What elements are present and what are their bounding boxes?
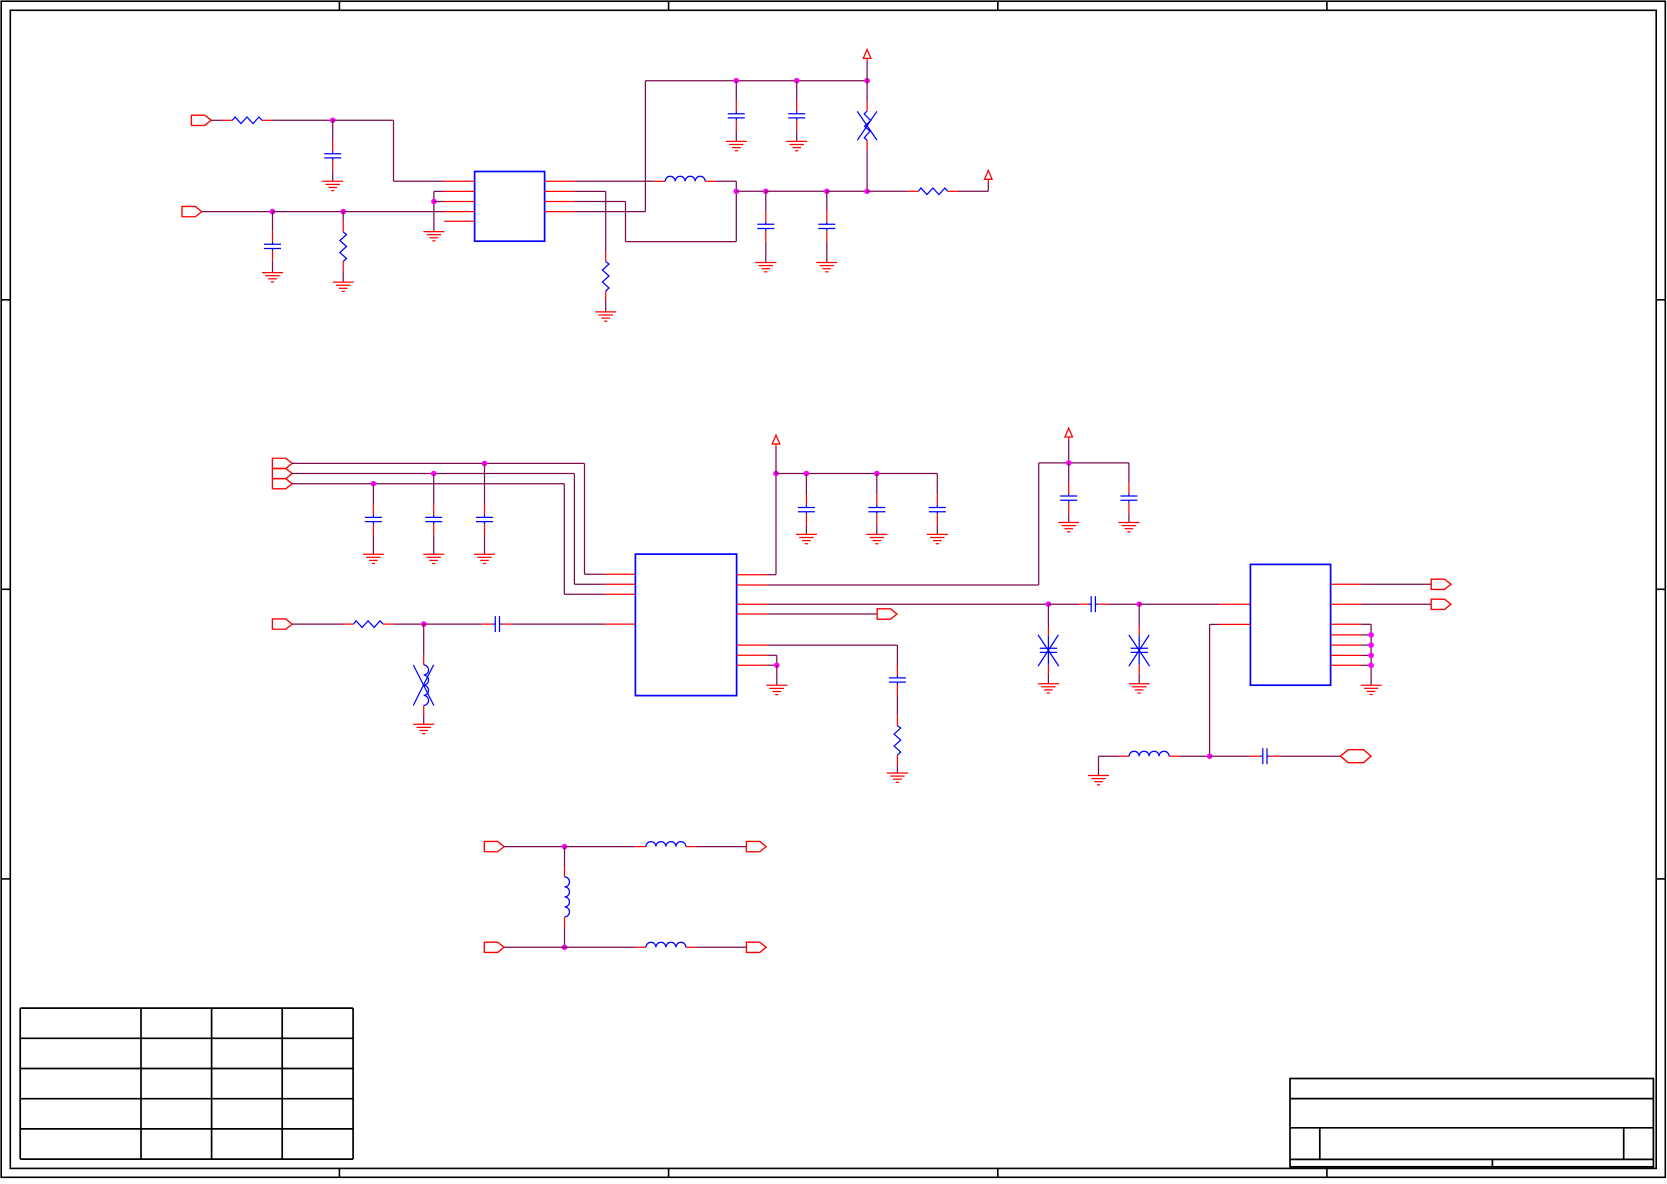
power symbol VCC4 bbox=[1065, 428, 1073, 440]
wire node F to D1 bbox=[1047, 604, 1049, 626]
capacitor C9 bbox=[476, 504, 493, 535]
port P3 (bus bit 1) bbox=[272, 458, 292, 468]
wire U2 pin11 corner bbox=[767, 654, 777, 656]
capacitor C14 (series) bbox=[889, 665, 906, 696]
wire U2 pin10 to node G bbox=[767, 664, 777, 666]
VCC rail top bbox=[645, 80, 867, 82]
wire VCC4 stem bbox=[1068, 440, 1070, 463]
wire pin13 to gnd bus bbox=[1362, 634, 1372, 636]
port P1 (top-left input) bbox=[191, 115, 211, 125]
U1 pin 8 bbox=[545, 180, 575, 182]
wire R5 to node E bbox=[394, 623, 424, 625]
wire FB1 to node D2 bbox=[866, 150, 868, 191]
junction node C bbox=[340, 209, 346, 215]
wire rail to C4 bbox=[796, 81, 798, 101]
junction rail at C3 bbox=[734, 78, 740, 84]
wire pin11 down bbox=[776, 655, 778, 665]
ESD protection D2 bbox=[1129, 627, 1150, 674]
wire node F to C17 bbox=[1048, 603, 1078, 605]
wire C18 to P10 bbox=[1280, 755, 1340, 757]
junction gnd bus 1 bbox=[1368, 632, 1374, 638]
border zone tick right 2 bbox=[1656, 588, 1665, 590]
border zone tick bottom 3 bbox=[997, 1168, 999, 1177]
U2 pin 16 bbox=[737, 574, 767, 576]
wire rail corner to C16 bbox=[1128, 463, 1130, 483]
ground below C2 bbox=[262, 273, 283, 282]
wire L6 to P14 bbox=[697, 946, 747, 948]
wire node D to C5 bbox=[736, 190, 766, 192]
VCC4 rail bbox=[1039, 462, 1129, 464]
port P5 (bus bit 3) bbox=[272, 479, 292, 489]
wire R4 to corner bbox=[959, 190, 989, 192]
wire to L3 bbox=[1099, 755, 1119, 757]
resistor R3 bbox=[602, 251, 609, 301]
power symbol VCC1 bbox=[863, 50, 871, 62]
border zone tick right 1 bbox=[1656, 299, 1665, 301]
junction at C5 bbox=[763, 189, 769, 195]
wire L1 to corner bbox=[716, 180, 737, 182]
capacitor C10 (series) bbox=[482, 616, 513, 632]
border zone tick bottom 2 bbox=[668, 1168, 670, 1177]
wire C11 to ground bbox=[805, 525, 807, 535]
ground below U3 bbox=[1361, 685, 1382, 694]
wire node H to D2 bbox=[1138, 604, 1140, 626]
ground below C9 bbox=[474, 554, 495, 563]
border zone tick left 1 bbox=[1, 299, 10, 301]
port P8 (output 1) bbox=[1431, 579, 1451, 589]
wire pin10 to gnd bus bbox=[1362, 664, 1372, 666]
wire rail to C15 bbox=[1068, 463, 1070, 483]
IC U1 bbox=[475, 172, 545, 242]
wire into U2 pin3 bbox=[564, 593, 605, 595]
wire into U2 pin2 bbox=[574, 583, 604, 585]
wire C9 to ground bbox=[484, 535, 486, 554]
wire row2 to C8 bbox=[433, 474, 435, 505]
border zone tick right 3 bbox=[1656, 878, 1665, 880]
ground below C16 bbox=[1118, 523, 1139, 532]
junction gnd bus 3 bbox=[1368, 653, 1374, 659]
inductor L1 bbox=[655, 176, 716, 181]
port P11 (filter in 1) bbox=[484, 841, 504, 851]
wire U2 pin13 to P7 bbox=[767, 613, 877, 615]
wire C4 to ground bbox=[796, 131, 798, 141]
U3 pin 11 bbox=[1331, 654, 1362, 656]
U1 pin 6 bbox=[545, 201, 575, 203]
wire rail to C11 bbox=[805, 474, 807, 495]
border zone tick top 2 bbox=[668, 1, 670, 10]
wire row3 down to U2 pin3 bbox=[563, 484, 565, 595]
capacitor C7 bbox=[365, 504, 382, 535]
wire pin11 to gnd bus bbox=[1362, 654, 1372, 656]
wire C13 to ground bbox=[936, 525, 938, 535]
ground below L2 bbox=[413, 724, 434, 733]
port P12 (filter out 1) bbox=[746, 841, 766, 851]
ground below C13 bbox=[927, 534, 948, 543]
wire node C to U1 pin 4 bbox=[343, 211, 443, 213]
wire pin6 down bbox=[625, 202, 627, 242]
wire R3 branch vertical bbox=[605, 191, 607, 251]
wire D1 to ground bbox=[1047, 674, 1049, 684]
wire C2 to ground bbox=[272, 262, 274, 273]
capacitor C2 bbox=[264, 231, 281, 262]
wire C3 to ground bbox=[735, 131, 737, 141]
inductor L6 bbox=[635, 942, 696, 947]
wire P11 to node K bbox=[504, 846, 564, 848]
ground below C15 bbox=[1058, 523, 1079, 532]
wire down to pin row 1 bbox=[393, 120, 395, 181]
wire node E to C10 bbox=[424, 623, 482, 625]
port P14 (filter out 2) bbox=[746, 942, 766, 952]
VCC3 vertical bbox=[775, 474, 777, 575]
capacitor C1 bbox=[324, 141, 341, 172]
border zone tick left 3 bbox=[1, 878, 10, 880]
junction node D2 bbox=[864, 189, 870, 195]
junction VCC4 rail bbox=[1066, 460, 1072, 466]
U2 pin 11 bbox=[737, 654, 767, 656]
U3 pin 12 bbox=[1331, 644, 1362, 646]
U3 pin 13 bbox=[1331, 634, 1362, 636]
junction rail at C11 bbox=[804, 471, 810, 477]
junction node F bbox=[1046, 601, 1052, 607]
border zone tick left 2 bbox=[1, 588, 10, 590]
junction on gnd branch bbox=[431, 199, 437, 205]
ESD protection D1 bbox=[1038, 627, 1059, 674]
port P13 (filter in 2) bbox=[484, 942, 504, 952]
U3 pin 16 bbox=[1331, 583, 1362, 585]
inductor L3 bbox=[1119, 751, 1180, 756]
U2 pin 15 bbox=[737, 584, 767, 586]
U3 pin 2 bbox=[1219, 603, 1250, 605]
ground below C7 bbox=[363, 554, 384, 563]
wire pin6 across bbox=[626, 241, 737, 243]
VCC3 rail bbox=[776, 473, 937, 475]
ground below C4 bbox=[786, 141, 807, 150]
wire U1 pin6 east bbox=[575, 201, 626, 203]
wire C16 to ground bbox=[1128, 513, 1130, 522]
wire R1 to node A bbox=[273, 119, 333, 121]
wire P13 to node L bbox=[504, 946, 564, 948]
wire U3 pin1 west bbox=[1210, 623, 1220, 625]
wire C17 to node H bbox=[1109, 603, 1140, 605]
wire C14 to R6 bbox=[896, 695, 898, 715]
port P6 (RF input) bbox=[272, 619, 292, 629]
wire VCC3 stem bbox=[775, 447, 777, 474]
wire node A to C1 bbox=[332, 120, 334, 140]
ground below C11 bbox=[796, 534, 817, 543]
capacitor C16 bbox=[1120, 483, 1137, 514]
junction gnd bus 2 bbox=[1368, 642, 1374, 648]
wire gnd branch vertical bbox=[433, 191, 435, 231]
U1 pin 2 bbox=[444, 190, 475, 192]
wire L5 to node L bbox=[564, 927, 566, 947]
wire C12 to ground bbox=[876, 525, 878, 535]
wire row2 down to U2 pin2 bbox=[573, 474, 575, 585]
revision table bbox=[20, 1008, 353, 1159]
wire C8 to ground bbox=[433, 535, 435, 554]
wire L3 to node J bbox=[1180, 755, 1210, 757]
wire U3 pin15 to P9 bbox=[1362, 603, 1432, 605]
junction node J bbox=[1207, 753, 1213, 759]
wire ground up to L3 bbox=[1098, 756, 1100, 775]
wire pin6 up to node D bbox=[735, 191, 737, 241]
U1 pin 7 bbox=[545, 190, 575, 192]
ground below C12 bbox=[866, 534, 887, 543]
ground below U2 pin10 bbox=[766, 685, 787, 694]
U1 pin 5b bbox=[545, 211, 575, 213]
U1 pin 1 bbox=[444, 180, 475, 182]
U1 pin 5 (NC stub) bbox=[444, 220, 474, 222]
wire R6 to ground bbox=[896, 766, 898, 774]
wire pin14 down gnd bus bbox=[1370, 624, 1372, 685]
junction node G bbox=[774, 662, 780, 668]
capacitor C15 bbox=[1060, 483, 1077, 514]
U2 pin 4 bbox=[605, 623, 636, 625]
wire C1 to ground bbox=[332, 171, 334, 181]
U2 pin 14 bbox=[737, 603, 767, 605]
wire node A east bbox=[333, 119, 394, 121]
wire U2 pin15 long east bbox=[767, 584, 1039, 586]
wire node B to C2 bbox=[272, 212, 274, 232]
wire C15 to ground bbox=[1068, 513, 1070, 522]
U2 pin 13 bbox=[737, 613, 767, 615]
U3 pin 1 bbox=[1219, 623, 1250, 625]
resistor R5 bbox=[343, 621, 394, 628]
junction row2 at C8 bbox=[431, 471, 437, 477]
wire node G to ground bbox=[776, 665, 778, 685]
wire row3 bbox=[292, 483, 565, 485]
wire row1 bbox=[292, 462, 585, 464]
inductor L5 (shunt) bbox=[565, 866, 570, 927]
U3 pin 10 bbox=[1331, 664, 1362, 666]
title block bbox=[1290, 1079, 1653, 1167]
U1 pin 4 bbox=[444, 211, 475, 213]
wire C6 cap to ground bbox=[826, 242, 828, 263]
U2 pin 2 bbox=[605, 583, 636, 585]
wire to U1 pin 1 bbox=[394, 180, 444, 182]
wire L2 to ground bbox=[423, 716, 425, 725]
port P2 (lower-left input) bbox=[182, 206, 202, 216]
wire node J to C18 bbox=[1210, 755, 1250, 757]
junction at C6 bbox=[824, 189, 830, 195]
power symbol VCC2 bbox=[985, 170, 993, 182]
ground below D2 bbox=[1129, 684, 1150, 693]
wire R3 to ground bbox=[605, 301, 607, 312]
wire node K to L4 bbox=[565, 846, 636, 848]
U2 pin 1 bbox=[605, 573, 636, 575]
wire node L to L6 bbox=[565, 946, 636, 948]
IC U3 bbox=[1250, 564, 1330, 685]
resistor R1 bbox=[222, 117, 273, 124]
resistor R4 bbox=[908, 188, 959, 195]
junction node H bbox=[1136, 601, 1142, 607]
wire U2 pin12 east bbox=[767, 644, 898, 646]
wire rail to FB1 bbox=[866, 81, 868, 102]
wire P6 to R5 bbox=[292, 623, 343, 625]
wire U1 pin5b to VCC drop bbox=[575, 211, 646, 213]
wire rail to C12 bbox=[876, 474, 878, 495]
wire corner up to VCC2 bbox=[987, 182, 989, 191]
ground below D1 bbox=[1038, 684, 1059, 693]
wire pin1 down to node J bbox=[1209, 624, 1211, 756]
U1 pin 3 bbox=[444, 201, 475, 203]
port P9 (output 2) bbox=[1431, 599, 1451, 609]
capacitor C12 bbox=[868, 494, 885, 525]
wire C6 to node D2 bbox=[827, 190, 867, 192]
port P10 (bidirectional RF) bbox=[1341, 750, 1372, 763]
capacitor C5 bbox=[757, 211, 774, 242]
wire node C to R2 bbox=[342, 212, 344, 222]
wire down to C14 bbox=[896, 645, 898, 665]
junction node L bbox=[562, 945, 568, 951]
junction node E bbox=[421, 621, 427, 627]
capacitor C11 bbox=[798, 494, 815, 525]
port P7 (output) bbox=[877, 609, 897, 619]
VCC vertical drop bbox=[644, 81, 646, 212]
wire node E down to L2 bbox=[423, 624, 425, 655]
border zone tick bottom 1 bbox=[338, 1168, 340, 1177]
wire row1 to C9 bbox=[484, 463, 486, 504]
junction VCC3 rail left bbox=[773, 471, 779, 477]
junction rail at C4 bbox=[794, 78, 800, 84]
wire U2 pin14 to node F bbox=[767, 603, 1048, 605]
wire rail corner to C13 bbox=[936, 474, 938, 495]
junction row1 at C9 bbox=[482, 461, 488, 467]
junction row3 at C7 bbox=[371, 481, 377, 487]
capacitor C4 bbox=[788, 101, 805, 132]
ground below C3 bbox=[726, 141, 747, 150]
capacitor C17 (series) bbox=[1078, 596, 1109, 612]
wire C7 to ground bbox=[372, 535, 374, 554]
border zone tick bottom 4 bbox=[1326, 1168, 1328, 1177]
junction node K bbox=[562, 844, 568, 850]
ground below C6 bbox=[816, 263, 837, 272]
wire P2 to node B bbox=[202, 211, 273, 213]
wire corner down to node D bbox=[735, 181, 737, 191]
U2 pin 12 bbox=[737, 644, 767, 646]
junction rail at FB1 bbox=[864, 78, 870, 84]
U3 pin 14 bbox=[1331, 623, 1362, 625]
wire U1 pin2 to gnd branch bbox=[434, 190, 444, 192]
wire pin14 corner bbox=[1361, 623, 1371, 625]
junction rail at C12 bbox=[874, 471, 880, 477]
wire VCC1 stem bbox=[866, 61, 868, 80]
IC U2 bbox=[635, 554, 736, 696]
ground below C1 bbox=[322, 181, 343, 190]
border zone tick top 1 bbox=[338, 1, 340, 10]
wire C5 to C6 bbox=[766, 190, 827, 192]
wire rail to C6 cap bbox=[826, 191, 828, 211]
wire rail to C3 bbox=[735, 81, 737, 101]
ground below C8 bbox=[423, 554, 444, 563]
DNP inductor L2 (crossed out) bbox=[413, 655, 434, 716]
U2 pin 3 bbox=[605, 593, 636, 595]
junction node D bbox=[734, 189, 740, 195]
U3 pin 15 bbox=[1331, 603, 1362, 605]
wire into U2 pin1 bbox=[585, 573, 605, 575]
ground below R6 bbox=[887, 773, 908, 782]
wire U1 pin7 to R3 bbox=[575, 190, 606, 192]
wire R2 to ground bbox=[342, 272, 344, 282]
capacitor C3 bbox=[728, 101, 745, 132]
capacitor C13 bbox=[929, 494, 946, 525]
wire U1 pin8 to L1 bbox=[575, 180, 655, 182]
wire node K down to L5 bbox=[564, 847, 566, 867]
wire node D2 to R4 bbox=[867, 190, 908, 192]
wire rail to C5 cap bbox=[765, 191, 767, 211]
junction node B bbox=[270, 209, 276, 215]
junction node A bbox=[330, 118, 336, 124]
power symbol VCC3 bbox=[772, 435, 780, 447]
wire pin15 up to VCC4 rail bbox=[1038, 463, 1040, 585]
ground below R3 bbox=[595, 312, 616, 321]
port P4 (bus bit 2) bbox=[272, 468, 292, 478]
ground at L3 bbox=[1088, 776, 1109, 785]
wire node B to node C bbox=[273, 211, 344, 213]
capacitor C6 bbox=[818, 211, 835, 242]
wire node H to U3 pin 2 bbox=[1139, 603, 1219, 605]
wire row1 down to U2 pin1 bbox=[584, 463, 586, 574]
ground below U1 pins bbox=[423, 232, 444, 241]
resistor R6 bbox=[894, 715, 901, 765]
inductor L4 bbox=[635, 842, 696, 847]
U2 pin 10 bbox=[737, 664, 767, 666]
DNP component FB1 (crossed out) bbox=[857, 102, 877, 150]
wire row2 bbox=[292, 473, 575, 475]
wire row3 to C7 bbox=[372, 484, 374, 505]
wire D2 to ground bbox=[1138, 674, 1140, 684]
wire U3 pin16 to P8 bbox=[1362, 583, 1432, 585]
junction gnd bus 4 bbox=[1368, 663, 1374, 669]
wire L4 to P12 bbox=[697, 846, 747, 848]
ground below R2 bbox=[333, 282, 354, 291]
ground below C5 bbox=[755, 263, 776, 272]
wire C10 to U2 pin4 bbox=[513, 623, 605, 625]
resistor R2 bbox=[340, 222, 347, 272]
wire pin12 to gnd bus bbox=[1362, 644, 1372, 646]
border zone tick top 3 bbox=[997, 1, 999, 10]
wire C5 cap to ground bbox=[765, 242, 767, 263]
wire P1 to R1 bbox=[211, 119, 222, 121]
wire U2 pin16 to VCC3 drop bbox=[767, 574, 776, 576]
border zone tick top 4 bbox=[1326, 1, 1328, 10]
wire U1 pin3 to gnd branch bbox=[434, 201, 444, 203]
capacitor C18 (series) bbox=[1250, 748, 1281, 764]
capacitor C8 bbox=[425, 504, 442, 535]
